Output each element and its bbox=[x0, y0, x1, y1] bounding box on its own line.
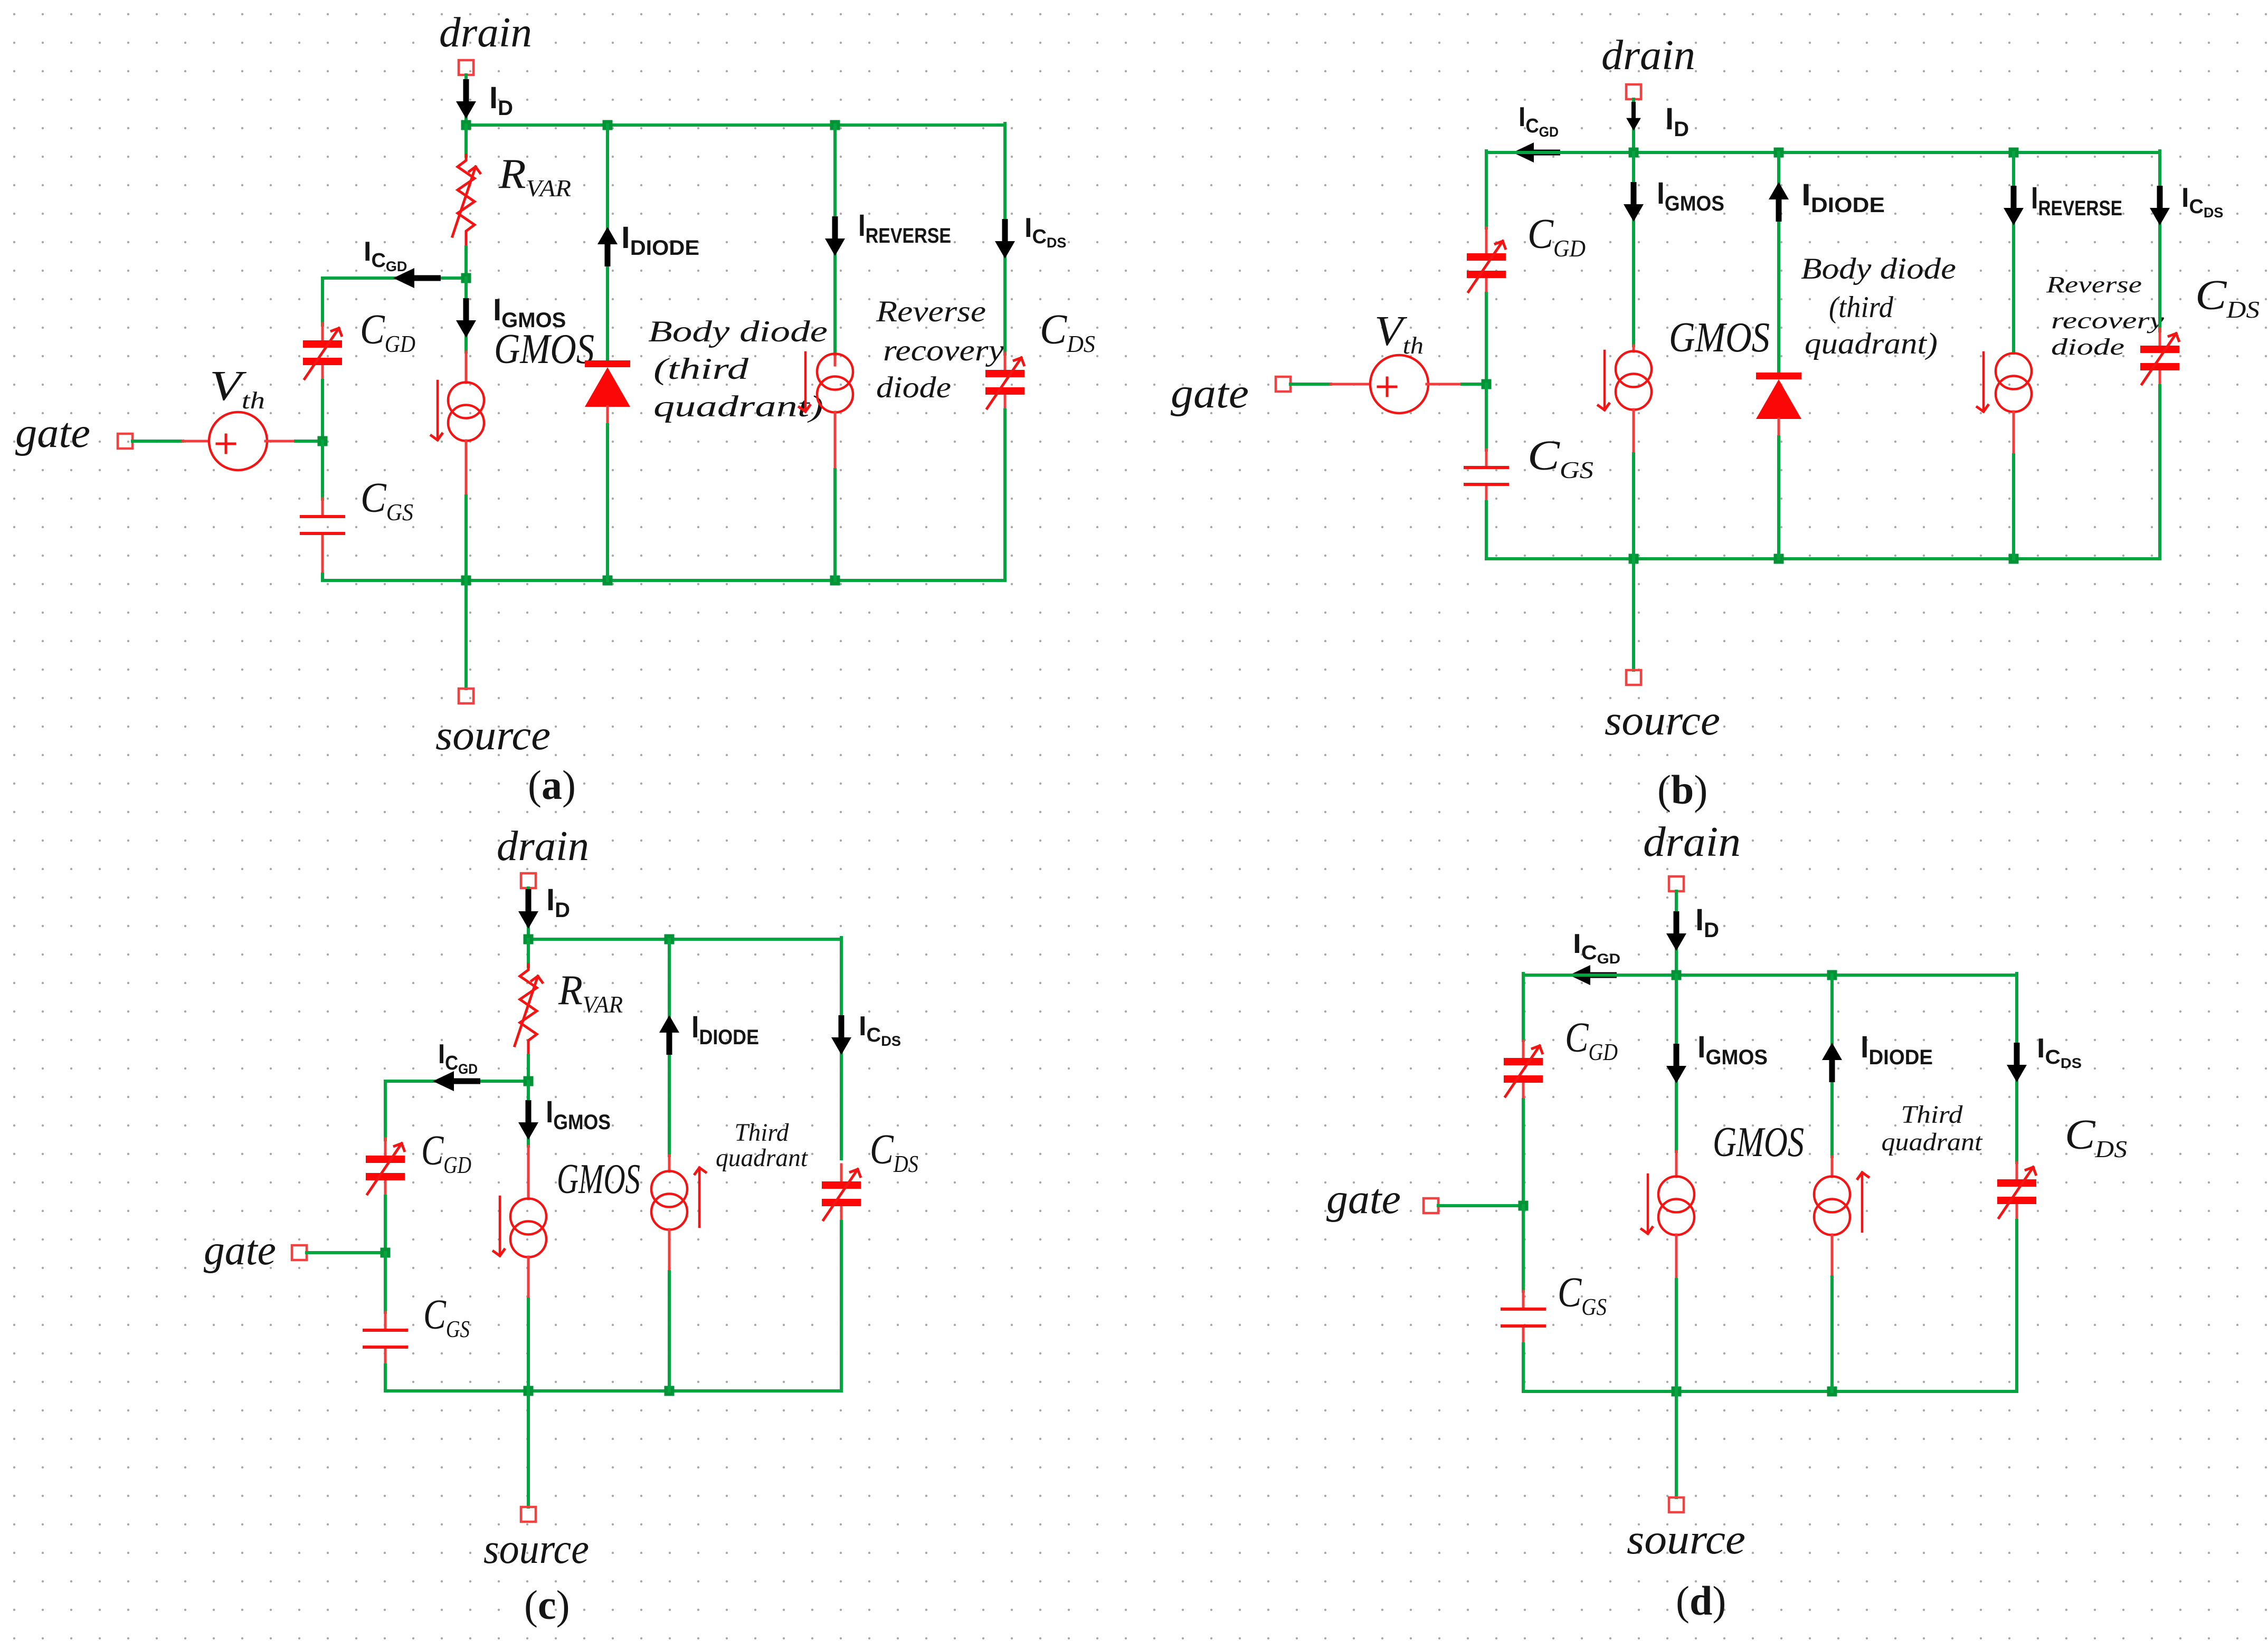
wire red lead to GMOS source (b) bbox=[1633, 346, 1635, 351]
current source third quadrant (d) bbox=[1814, 1177, 1850, 1235]
wire GMOS branch upper (d) bbox=[1675, 975, 1678, 1151]
svg-text:quadrant: quadrant bbox=[716, 1144, 809, 1172]
wire gate node to CGS (d) bbox=[1522, 1206, 1525, 1291]
wire red lead below third-quadrant source (c) bbox=[668, 1229, 671, 1272]
wire source stub (b) bbox=[1632, 559, 1635, 670]
wire red lead below GMOS source (d) bbox=[1675, 1235, 1678, 1280]
current arrow IDIODE (b) bbox=[1769, 182, 1789, 222]
terminal gate (c) bbox=[292, 1245, 307, 1260]
wire CGD to gate node (b) bbox=[1485, 293, 1488, 384]
wire third-quadrant to bottom rail (c) bbox=[668, 1272, 671, 1391]
wire red lead out of Vth (b) bbox=[1427, 383, 1462, 386]
diode body diode (b) bbox=[1756, 373, 1801, 437]
svg-text:Third: Third bbox=[735, 1119, 790, 1147]
wire gate to Vth (b) bbox=[1290, 383, 1331, 386]
junction (d) bottom third-quadrant bbox=[1827, 1387, 1837, 1397]
wire red lead above CGD (b) bbox=[1485, 228, 1488, 237]
wire CGS to bottom rail (a) bbox=[321, 550, 324, 574]
terminal source (a) bbox=[459, 689, 473, 703]
svg-text:Third: Third bbox=[1901, 1101, 1963, 1129]
svg-text:GMOS: GMOS bbox=[1713, 1119, 1804, 1166]
wire bottom rail (d) bbox=[1523, 1390, 2017, 1393]
svg-text:(third: (third bbox=[653, 352, 749, 386]
junction (b) bottom reverse bbox=[2009, 554, 2019, 564]
current source third quadrant (c) bbox=[651, 1171, 687, 1230]
wire mid node to GMOS source (a) bbox=[464, 278, 468, 352]
junction (b) top reverse bbox=[2009, 148, 2019, 158]
wire right edge lower (a) bbox=[1003, 410, 1007, 580]
wire top rail (a) bbox=[466, 123, 1005, 127]
svg-text:source: source bbox=[483, 1526, 589, 1572]
red arrow of GMOS source (b) bbox=[1604, 351, 1605, 410]
current source GMOS (a) bbox=[448, 383, 484, 441]
svg-text:drain: drain bbox=[1643, 819, 1741, 865]
junction (a) bottom body-diode bbox=[603, 576, 613, 586]
capacitor CGD (a) variable bbox=[303, 323, 342, 381]
wire right edge upper (a) bbox=[1003, 123, 1007, 354]
wire third-quadrant branch upper (d) bbox=[1830, 975, 1834, 1157]
junction (a) top reverse bbox=[830, 120, 840, 130]
current arrow ICGD (a) bbox=[393, 268, 441, 288]
junction (a) drain/top bbox=[461, 120, 471, 130]
svg-text:gate: gate bbox=[15, 410, 90, 456]
wire drain to RVAR (c) bbox=[527, 939, 530, 967]
wire RVAR to mid node (a) bbox=[464, 247, 468, 278]
terminal gate (b) bbox=[1276, 377, 1290, 392]
current arrow ICDS (d) bbox=[2007, 1043, 2027, 1082]
wire red lead below GMOS source (a) bbox=[465, 441, 468, 496]
terminal drain (b) bbox=[1626, 84, 1641, 99]
wire ICGD branch (c) bbox=[385, 1080, 528, 1083]
junction (a) bottom source bbox=[461, 576, 471, 586]
wire bottom rail (b) bbox=[1486, 557, 2160, 560]
wire red lead below GMOS source (b) bbox=[1633, 409, 1635, 454]
wire bottom rail (a) bbox=[322, 579, 1005, 582]
svg-text:diode: diode bbox=[876, 371, 951, 404]
svg-text:recovery: recovery bbox=[2051, 308, 2165, 333]
current arrow IDIODE (c) bbox=[659, 1015, 679, 1055]
svg-text:Body diode: Body diode bbox=[648, 315, 828, 348]
wire bottom rail (c) bbox=[385, 1389, 841, 1392]
current arrow ICGD (d) bbox=[1569, 965, 1617, 985]
svg-text:source: source bbox=[435, 712, 551, 759]
wire red lead to GMOS source (c) bbox=[527, 1146, 530, 1199]
capacitor CGD (b) variable bbox=[1467, 236, 1506, 294]
wire right edge upper (c) bbox=[840, 938, 843, 1159]
current arrow IGMOS (d) bbox=[1666, 1044, 1686, 1083]
current arrow IDIODE (a) bbox=[597, 227, 618, 266]
current arrow IREVERSE (a) bbox=[825, 216, 845, 256]
wire gate node to CGS (c) bbox=[384, 1253, 387, 1312]
terminal drain (d) bbox=[1669, 876, 1684, 891]
wire red lead to third-quadrant source (c) bbox=[668, 1156, 671, 1171]
junction (d) top third-quadrant bbox=[1827, 970, 1837, 980]
current source reverse recovery (b) bbox=[1996, 354, 2032, 412]
svg-text:(third: (third bbox=[1829, 291, 1893, 324]
svg-text:GMOS: GMOS bbox=[1669, 314, 1770, 361]
wire CGD to gate node (d) bbox=[1522, 1100, 1525, 1206]
capacitor CDS (c) variable bbox=[822, 1165, 861, 1223]
wire right edge upper (b) bbox=[2158, 151, 2161, 331]
svg-text:gate: gate bbox=[1171, 370, 1249, 417]
svg-text:quadrant): quadrant) bbox=[1805, 327, 1938, 360]
capacitor CGS (a) bbox=[301, 499, 344, 551]
current source GMOS (b) bbox=[1616, 351, 1652, 410]
terminal drain (a) bbox=[459, 60, 473, 75]
terminal gate (a) bbox=[118, 434, 132, 449]
wire GMOS to bottom rail (c) bbox=[527, 1299, 530, 1391]
wire GMOS branch upper (b) bbox=[1632, 152, 1635, 346]
current source GMOS (c) bbox=[510, 1199, 546, 1257]
wire gate to gate node (d) bbox=[1438, 1204, 1523, 1207]
resistor RVAR (a) bbox=[452, 155, 476, 248]
svg-text:(d): (d) bbox=[1676, 1578, 1726, 1624]
wire top rail (c) bbox=[528, 938, 841, 941]
red arrow of third-quadrant source (d) bbox=[1862, 1172, 1863, 1232]
current arrow ID (a) bbox=[456, 79, 476, 119]
junction (c) bottom source bbox=[524, 1386, 534, 1396]
wire right edge lower (d) bbox=[2015, 1220, 2018, 1391]
svg-text:gate: gate bbox=[1326, 1176, 1401, 1223]
voltage source Vth (b) bbox=[1370, 355, 1428, 413]
junction (a) mid node bbox=[461, 273, 471, 283]
current arrow IGMOS (b) bbox=[1624, 182, 1644, 222]
wire mid node to GMOS source (c) bbox=[527, 1081, 530, 1146]
red arrow of reverse source (a) bbox=[805, 352, 806, 412]
wire reverse branch upper (b) bbox=[2012, 152, 2015, 353]
wire Vth to gate node (a) bbox=[296, 440, 322, 443]
wire gate to gate node (c) bbox=[307, 1251, 385, 1254]
capacitor CGS (d) bbox=[1502, 1291, 1544, 1344]
current source GMOS (d) bbox=[1658, 1177, 1694, 1235]
junction (b) top body-diode bbox=[1774, 148, 1784, 158]
current arrow IGMOS (a) bbox=[456, 298, 476, 338]
junction (c) mid node bbox=[524, 1076, 534, 1086]
wire reverse branch lower (b) bbox=[2012, 455, 2015, 559]
wire ICGD branch (a) bbox=[322, 276, 466, 280]
wire GMOS to bottom rail (b) bbox=[1632, 454, 1635, 559]
svg-text:drain: drain bbox=[1601, 32, 1695, 79]
terminal source (d) bbox=[1669, 1497, 1684, 1512]
wire red lead below third-quadrant source (d) bbox=[1831, 1235, 1834, 1277]
resistor RVAR (c) bbox=[515, 965, 538, 1057]
wire red lead into Vth (b) bbox=[1331, 383, 1372, 386]
wire drain lead (a) bbox=[464, 75, 468, 125]
svg-text:quadrant): quadrant) bbox=[653, 390, 823, 423]
terminal drain (c) bbox=[521, 873, 536, 888]
junction (b) gate node bbox=[1482, 379, 1492, 389]
current arrow IGMOS (c) bbox=[518, 1100, 538, 1140]
wire right edge lower (c) bbox=[840, 1222, 843, 1391]
wire top rail (b) bbox=[1486, 151, 2160, 154]
junction (d) gate node bbox=[1519, 1201, 1529, 1211]
current arrow ID (c) bbox=[518, 889, 538, 929]
junction (b) bottom body-diode bbox=[1774, 554, 1784, 564]
svg-text:source: source bbox=[1605, 698, 1720, 744]
red arrow of GMOS source (d) bbox=[1647, 1175, 1648, 1234]
wire red lead reverse source (a) bbox=[834, 355, 837, 365]
junction (a) bottom reverse bbox=[830, 576, 840, 586]
wire GMOS to bottom rail (d) bbox=[1675, 1280, 1678, 1391]
svg-text:drain: drain bbox=[439, 9, 532, 56]
terminal source (c) bbox=[521, 1507, 536, 1522]
capacitor CDS (b) variable bbox=[2140, 329, 2179, 387]
junction (b) bottom source bbox=[1629, 554, 1639, 564]
current arrow ID (d) bbox=[1666, 911, 1686, 951]
wire left edge upper (b) bbox=[1485, 151, 1488, 228]
svg-text:drain: drain bbox=[497, 823, 589, 870]
wire drain to RVAR (a) bbox=[464, 125, 468, 156]
capacitor CGD (c) variable bbox=[366, 1139, 405, 1197]
svg-text:(c): (c) bbox=[524, 1582, 570, 1628]
capacitor CGD (d) variable bbox=[1504, 1041, 1543, 1099]
current source reverse recovery (a) bbox=[817, 354, 853, 413]
junction (c) gate node bbox=[381, 1248, 391, 1258]
wire red lead to third-quadrant source (d) bbox=[1831, 1157, 1834, 1177]
wire reverse branch lower (a) bbox=[833, 470, 837, 580]
red arrow of GMOS source (a) bbox=[437, 381, 438, 440]
wire drain lead (b) bbox=[1632, 99, 1635, 152]
svg-text:recovery: recovery bbox=[883, 334, 1004, 367]
current arrow ICGD (c) bbox=[433, 1071, 480, 1091]
current arrow ICDS (a) bbox=[995, 219, 1015, 259]
junction (a) top body-diode bbox=[603, 120, 613, 130]
wire drain lead (d) bbox=[1675, 891, 1678, 975]
current arrow IREVERSE (b) bbox=[2004, 186, 2024, 225]
wire red lead below reverse source (a) bbox=[834, 412, 837, 470]
junction (c) bottom third-quadrant bbox=[665, 1386, 675, 1396]
wire body-diode branch lower (a) bbox=[606, 425, 609, 580]
junction (a) gate node bbox=[318, 436, 328, 446]
wire third-quadrant to bottom rail (d) bbox=[1830, 1277, 1834, 1391]
voltage source Vth (a) bbox=[209, 412, 267, 470]
current arrow IDIODE (d) bbox=[1822, 1043, 1842, 1082]
svg-text:(b): (b) bbox=[1657, 767, 1707, 813]
svg-text:GMOS: GMOS bbox=[557, 1156, 640, 1203]
wire red lead out of Vth (a) bbox=[265, 440, 296, 443]
svg-text:diode: diode bbox=[2051, 334, 2124, 360]
junction (d) drain/top bbox=[1672, 970, 1682, 980]
junction (d) bottom source bbox=[1672, 1387, 1682, 1397]
wire red lead to GMOS source (d) bbox=[1675, 1151, 1678, 1177]
capacitor CGS (b) bbox=[1465, 450, 1507, 502]
wire right edge upper (d) bbox=[2015, 974, 2018, 1162]
wire drain lead (c) bbox=[527, 888, 530, 939]
svg-text:quadrant: quadrant bbox=[1882, 1128, 1984, 1156]
wire reverse branch upper (a) bbox=[833, 125, 837, 355]
wire source stub (a) bbox=[464, 580, 468, 689]
svg-text:Body diode: Body diode bbox=[1801, 252, 1956, 285]
wire red lead to GMOS source (a) bbox=[465, 352, 468, 383]
capacitor CDS (d) variable bbox=[1997, 1162, 2036, 1220]
wire gate to Vth (a) bbox=[132, 440, 183, 443]
capacitor CDS (a) variable bbox=[985, 353, 1024, 411]
svg-text:(a): (a) bbox=[528, 762, 576, 808]
wire CGD to gate node (a) bbox=[321, 380, 324, 441]
wire RVAR to mid node (c) bbox=[527, 1055, 530, 1081]
terminal source (b) bbox=[1626, 670, 1641, 685]
wire CGS to bottom rail (c) bbox=[384, 1365, 387, 1391]
red arrow of reverse source (b) bbox=[1983, 352, 1984, 412]
red arrow of third-quadrant source (c) bbox=[699, 1168, 700, 1227]
wire mid node down to CGD (c) bbox=[384, 1081, 387, 1140]
wire CGS to bottom rail (b) bbox=[1485, 502, 1488, 559]
current arrow ICDS (b) bbox=[2150, 186, 2170, 225]
wire right edge lower (b) bbox=[2158, 386, 2161, 559]
wire third-quadrant branch upper (c) bbox=[668, 939, 671, 1156]
wire CGD to gate node (c) bbox=[384, 1196, 387, 1253]
junction (c) top third-quadrant bbox=[665, 934, 675, 944]
svg-text:GMOS: GMOS bbox=[494, 326, 594, 373]
current arrow ID (b) bbox=[1626, 102, 1641, 131]
wire mid node down to CGD (a) bbox=[321, 278, 324, 325]
wire gate node to CGS (b) bbox=[1485, 384, 1488, 450]
wire body-diode branch lower (b) bbox=[1777, 437, 1780, 559]
wire red lead into Vth (a) bbox=[183, 440, 211, 443]
svg-text:Reverse: Reverse bbox=[876, 295, 986, 328]
wire CGS to bottom rail (d) bbox=[1522, 1344, 1525, 1391]
wire red lead below GMOS source (c) bbox=[527, 1257, 530, 1299]
terminal gate (d) bbox=[1424, 1198, 1438, 1213]
red arrow of GMOS source (c) bbox=[499, 1197, 500, 1256]
wire left edge upper (d) bbox=[1522, 974, 1525, 1041]
wire gate node to CGS (a) bbox=[321, 441, 324, 499]
diode body diode (a) bbox=[585, 360, 630, 425]
junction (b) drain/top bbox=[1629, 148, 1639, 158]
svg-text:gate: gate bbox=[204, 1227, 276, 1274]
current arrow ICGD (b) bbox=[1513, 142, 1560, 163]
wire body-diode branch upper (a) bbox=[606, 125, 609, 360]
svg-text:source: source bbox=[1627, 1516, 1745, 1563]
wire body-diode branch upper (b) bbox=[1777, 152, 1780, 373]
current arrow ICDS (c) bbox=[831, 1015, 851, 1055]
wire red lead below reverse source (b) bbox=[2013, 412, 2015, 455]
svg-text:Reverse: Reverse bbox=[2046, 272, 2142, 298]
wire source stub (c) bbox=[527, 1391, 530, 1507]
wire source stub (d) bbox=[1675, 1391, 1678, 1497]
wire top rail (d) bbox=[1523, 974, 2017, 977]
wire Vth to gate node (b) bbox=[1462, 383, 1486, 386]
junction (c) drain/top bbox=[524, 934, 534, 944]
capacitor CGS (c) bbox=[364, 1312, 406, 1365]
wire GMOS to bottom rail (a) bbox=[464, 496, 468, 580]
